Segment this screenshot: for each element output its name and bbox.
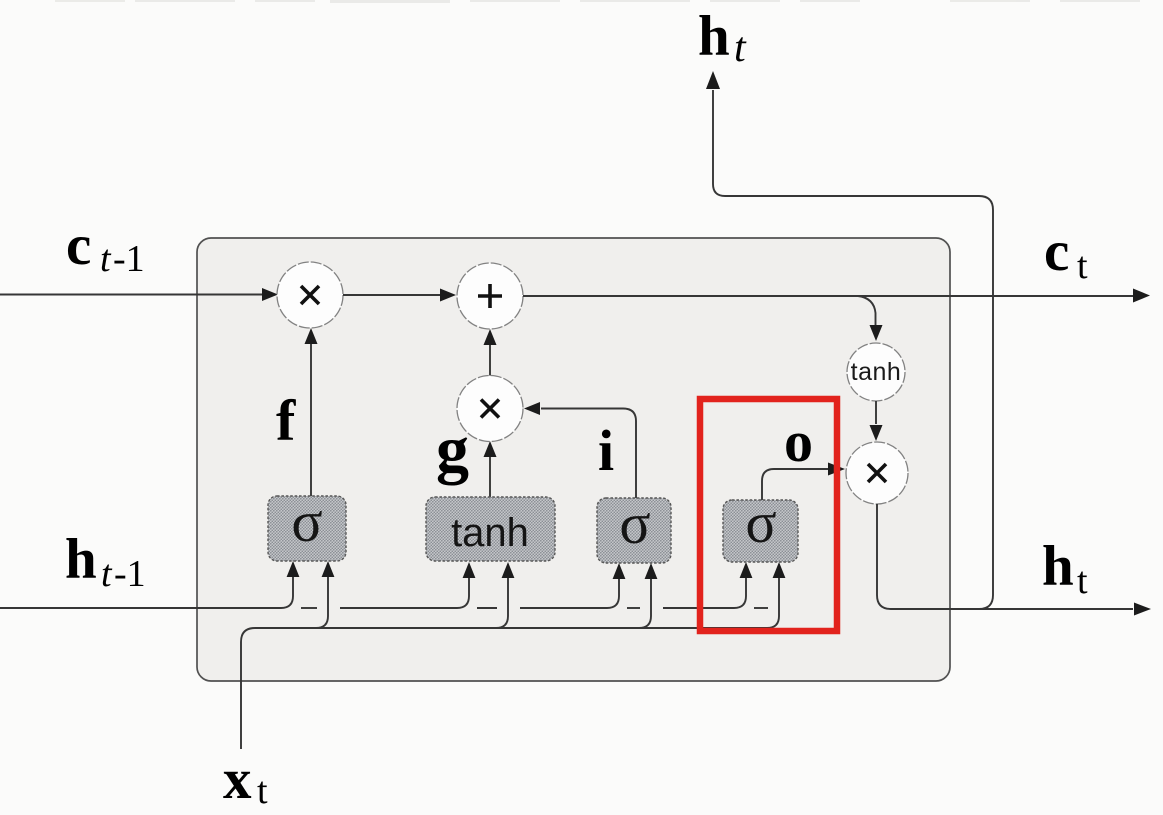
wire h segment 7 and branch to o left <box>663 578 746 608</box>
svg-text:-1: -1 <box>114 553 146 595</box>
wire g gate to X2 <box>489 457 491 497</box>
wire c_t output <box>523 295 1133 297</box>
svg-text:h: h <box>65 528 97 591</box>
svg-text:c: c <box>66 214 91 277</box>
svg-text:t: t <box>257 770 268 812</box>
svg-text:σ: σ <box>619 491 650 556</box>
wire h_t recurrent branch up and over <box>713 90 993 609</box>
wire h segment 5 and branch to i left <box>520 579 619 608</box>
gate i (sigma) <box>597 498 671 563</box>
wire branch c to tanh node <box>858 296 876 325</box>
wire h_{t-1} input segment 1 and branch to f left <box>0 577 293 608</box>
wire X1 to plus <box>343 294 440 296</box>
wire h segment 6 <box>627 607 640 609</box>
svg-text:t: t <box>100 238 112 280</box>
svg-text:σ: σ <box>745 490 776 555</box>
wire tanh to X3 <box>875 401 877 424</box>
node tanh <box>847 343 905 401</box>
red highlight rectangle around o gate <box>700 399 837 631</box>
gate o (sigma) <box>723 500 798 562</box>
node multiply X1 (forget) <box>277 262 343 328</box>
wire X2 to plus <box>489 345 491 376</box>
wire h_t output from X3 <box>877 504 1133 609</box>
gate f (sigma) <box>268 496 346 561</box>
svg-text:o: o <box>784 409 813 474</box>
wire f gate to X1 <box>310 344 312 496</box>
svg-text:t: t <box>734 25 747 71</box>
wire x branch to f right <box>316 577 328 628</box>
svg-text:t: t <box>101 553 113 595</box>
svg-text:c: c <box>1044 220 1069 283</box>
LSTM cell body box <box>197 238 950 681</box>
svg-text:t: t <box>1077 560 1088 602</box>
svg-text:h: h <box>698 5 730 68</box>
svg-text:σ: σ <box>291 489 322 554</box>
wire h segment 2 <box>301 607 317 609</box>
wire h segment 3 and branch to g left <box>340 578 469 608</box>
wire o gate to X3 <box>762 469 828 500</box>
gate g (tanh) <box>426 497 555 561</box>
wire x branch to i right <box>639 579 651 628</box>
node add <box>457 263 523 329</box>
svg-text:x: x <box>223 748 252 811</box>
svg-text:tanh: tanh <box>451 511 529 555</box>
wire x branch to g right <box>496 578 508 628</box>
svg-text:h: h <box>1042 535 1074 598</box>
svg-text:g: g <box>436 413 469 486</box>
svg-text:t: t <box>1077 245 1088 287</box>
node multiply X3 (output) <box>846 442 908 504</box>
wire x_t input rail <box>241 578 779 749</box>
svg-text:f: f <box>276 388 296 453</box>
wire h segment 4 <box>477 607 497 609</box>
svg-text:i: i <box>598 418 614 483</box>
wire h segment 8 <box>754 607 768 609</box>
svg-text:-1: -1 <box>113 238 145 280</box>
svg-text:tanh: tanh <box>851 358 902 386</box>
wire c_{t-1} input <box>0 294 262 296</box>
wire i gate to X2 <box>541 409 636 499</box>
node multiply X2 (input) <box>457 376 523 442</box>
faint cropped text row at very top of scan <box>55 0 1140 3</box>
